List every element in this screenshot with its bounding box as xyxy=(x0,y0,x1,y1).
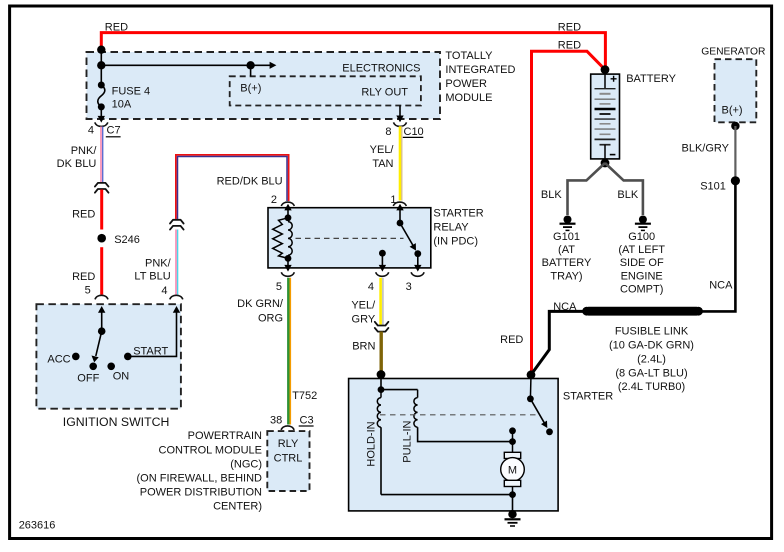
svg-text:(AT: (AT xyxy=(558,244,575,256)
svg-text:RLY OUT: RLY OUT xyxy=(361,87,408,99)
pin 38 connector C3 PCM entry xyxy=(270,415,314,430)
svg-text:ENGINE: ENGINE xyxy=(621,270,663,282)
wire RED from inline connector to ignition switch pin 5 xyxy=(72,190,102,295)
wire YEL/GRY from relay pin 4 to inline connector xyxy=(351,278,383,326)
module TIPM box xyxy=(87,52,441,119)
svg-text:8: 8 xyxy=(385,126,391,138)
node bus junction dot xyxy=(97,61,105,69)
svg-text:COMPT): COMPT) xyxy=(620,283,663,295)
wire NCA from S101 to fusible link xyxy=(699,181,736,312)
svg-text:TOTALLY: TOTALLY xyxy=(445,50,493,62)
wire BRN from inline connector to starter solenoid xyxy=(352,332,381,373)
ground G101 xyxy=(542,216,592,283)
svg-text:BRN: BRN xyxy=(352,340,375,352)
svg-text:(2.4L): (2.4L) xyxy=(637,353,666,365)
inductor hold-in winding xyxy=(366,390,382,495)
svg-text:RED: RED xyxy=(105,21,128,33)
svg-text:PNK/: PNK/ xyxy=(71,145,98,157)
svg-text:4: 4 xyxy=(161,285,167,297)
node splice S101 xyxy=(700,176,740,192)
svg-text:ELECTRONICS: ELECTRONICS xyxy=(342,63,420,75)
svg-text:S101: S101 xyxy=(700,180,726,192)
svg-text:5: 5 xyxy=(85,284,91,296)
motor starter box xyxy=(349,379,614,511)
svg-text:OFF: OFF xyxy=(77,372,99,384)
wire BLK battery negative to G101 xyxy=(541,163,605,215)
relay K1 starter relay box xyxy=(268,208,484,268)
wire RED/DK BLU from inline connector to relay pin 2 xyxy=(176,155,289,219)
resistor R1 relay coil suppression resistor xyxy=(273,218,288,259)
svg-text:DK GRN/: DK GRN/ xyxy=(237,298,284,310)
wire DK GRN/ORG from relay pin 5 to PCM C3 xyxy=(237,278,317,425)
svg-text:(IN PDC): (IN PDC) xyxy=(433,235,478,247)
wire NCA from fusible link to starter feed junction xyxy=(531,301,587,375)
svg-text:INTEGRATED: INTEGRATED xyxy=(445,64,515,76)
svg-text:(8 GA-LT BLU): (8 GA-LT BLU) xyxy=(615,367,687,379)
wire PNK/LT BLU from ignition pin 4 up to inline connector xyxy=(134,230,177,295)
svg-text:38: 38 xyxy=(270,415,282,427)
wire TIPM internal feed bus xyxy=(101,50,276,85)
svg-text:TRAY): TRAY) xyxy=(550,270,582,282)
svg-text:BLK: BLK xyxy=(617,189,638,201)
svg-text:10A: 10A xyxy=(112,98,132,110)
pin 4 ignition switch connector xyxy=(161,285,182,300)
wire BLK battery negative to G100 xyxy=(605,163,643,215)
svg-text:G101: G101 xyxy=(553,231,580,243)
connector inline on PNK/DK BLU to RED xyxy=(95,183,109,193)
pin 5 relay exit arrow xyxy=(276,258,294,293)
battery B1 box xyxy=(591,73,677,159)
pin 5 ignition switch entry xyxy=(85,284,108,331)
svg-text:POWER DISTRIBUTION: POWER DISTRIBUTION xyxy=(140,487,262,499)
wire PNK/DK BLU from C7 to inline connector xyxy=(57,127,103,183)
svg-text:CENTER): CENTER) xyxy=(213,501,262,513)
svg-text:LT BLU: LT BLU xyxy=(134,271,170,283)
node motor feed contacts xyxy=(509,427,516,445)
node B(+) drop junction xyxy=(240,61,261,94)
svg-text:BATTERY: BATTERY xyxy=(626,73,676,85)
svg-text:(NGC): (NGC) xyxy=(230,458,262,470)
connector inline on YEL/GRY to BRN xyxy=(375,322,389,332)
svg-text:GENERATOR: GENERATOR xyxy=(701,46,765,57)
pin 3 relay exit arrow xyxy=(406,254,425,293)
motor M starter motor xyxy=(501,442,525,495)
svg-text:FUSE 4: FUSE 4 xyxy=(112,85,151,97)
module ignition switch box xyxy=(36,304,181,429)
battery B1 internal plates xyxy=(595,65,617,167)
wire YEL/TAN from C10 to relay pin 1 xyxy=(370,126,402,200)
node starter main feed junction xyxy=(527,370,536,398)
pin 1 relay entry connector xyxy=(390,194,406,223)
svg-text:(10 GA-DK GRN): (10 GA-DK GRN) xyxy=(609,340,694,352)
svg-text:ACC: ACC xyxy=(47,353,70,365)
svg-text:M: M xyxy=(508,465,517,477)
svg-text:POWERTRAIN: POWERTRAIN xyxy=(188,430,262,442)
svg-text:(2.4L TURB0): (2.4L TURB0) xyxy=(618,381,685,393)
svg-text:POWER: POWER xyxy=(445,78,487,90)
svg-text:T752: T752 xyxy=(292,390,317,402)
svg-text:PNK/: PNK/ xyxy=(145,258,172,270)
svg-text:NCA: NCA xyxy=(553,301,577,313)
ground starter case ground xyxy=(505,510,521,526)
module generator box xyxy=(701,46,765,122)
svg-text:5: 5 xyxy=(276,281,282,293)
node starter solenoid feed junction xyxy=(377,370,386,390)
svg-text:ORG: ORG xyxy=(258,312,283,324)
switch starter solenoid contact arm xyxy=(527,395,553,435)
connector inline on PNK/LT BLU to RED/DK BLU xyxy=(170,220,184,230)
svg-text:(AT LEFT: (AT LEFT xyxy=(618,244,665,256)
module ELECTRONICS sub-box (inside TIPM) xyxy=(230,63,421,106)
svg-text:RELAY: RELAY xyxy=(433,221,469,233)
fusible link FL1 xyxy=(582,307,703,393)
svg-text:BLK/GRY: BLK/GRY xyxy=(682,143,730,155)
svg-text:STARTER: STARTER xyxy=(563,390,613,402)
svg-text:RED: RED xyxy=(72,271,95,283)
svg-text:RED: RED xyxy=(500,334,523,346)
svg-text:G100: G100 xyxy=(628,231,655,243)
svg-text:4: 4 xyxy=(88,125,94,137)
module TIPM label TOTALLY INTEGRATED POWER MODULE xyxy=(445,50,515,104)
inductor L1 relay coil xyxy=(285,214,293,261)
ground G100 xyxy=(618,216,665,296)
node TIPM battery feed junction xyxy=(97,46,105,54)
svg-text:(ON FIREWALL, BEHIND: (ON FIREWALL, BEHIND xyxy=(137,473,263,485)
svg-text:C7: C7 xyxy=(107,125,121,137)
pin 2 relay entry connector xyxy=(271,194,294,218)
svg-text:RLY: RLY xyxy=(278,438,299,450)
svg-text:GRY: GRY xyxy=(352,314,376,326)
svg-text:RED: RED xyxy=(558,21,581,33)
svg-text:NCA: NCA xyxy=(709,280,733,292)
switch relay contact arm xyxy=(397,220,422,258)
svg-text:RED: RED xyxy=(72,208,95,220)
svg-text:DK BLU: DK BLU xyxy=(57,158,97,170)
svg-text:4: 4 xyxy=(368,281,374,293)
svg-text:FUSIBLE LINK: FUSIBLE LINK xyxy=(615,326,689,338)
wire START terminal to ignition pin 4 xyxy=(128,306,180,356)
svg-text:TAN: TAN xyxy=(372,158,393,170)
svg-text:RED/DK BLU: RED/DK BLU xyxy=(217,176,283,188)
switch SW1 ignition switch arm and positions xyxy=(47,327,168,384)
svg-text:PULL-IN: PULL-IN xyxy=(401,420,413,462)
pin 8 connector C10 RLY OUT exit arrow xyxy=(361,87,423,138)
svg-text:YEL/: YEL/ xyxy=(351,300,376,312)
svg-text:ON: ON xyxy=(113,370,130,382)
svg-text:B(+): B(+) xyxy=(722,104,743,116)
wire RED from TIPM top to battery positive xyxy=(101,21,605,69)
pin 4 relay exit arrow xyxy=(368,250,389,293)
svg-text:YEL/: YEL/ xyxy=(370,144,395,156)
svg-text:C10: C10 xyxy=(404,126,424,138)
svg-text:B(+): B(+) xyxy=(240,82,261,94)
wire starter internal return xyxy=(381,491,516,511)
svg-text:C3: C3 xyxy=(300,415,314,427)
svg-text:BATTERY: BATTERY xyxy=(542,257,592,269)
svg-text:IGNITION SWITCH: IGNITION SWITCH xyxy=(63,415,170,429)
inductor pull-in winding xyxy=(401,390,512,463)
wire RED from battery positive down right side to starter xyxy=(500,39,605,374)
svg-text:263616: 263616 xyxy=(19,520,56,532)
svg-text:SIDE OF: SIDE OF xyxy=(620,257,664,269)
wire relay dashed actuation link xyxy=(296,237,404,239)
svg-text:MODULE: MODULE xyxy=(445,92,492,104)
fuse F4 FUSE 4 10A xyxy=(98,82,150,111)
module PCM label POWERTRAIN CONTROL MODULE xyxy=(137,430,263,513)
wire starter dashed actuation link xyxy=(380,414,537,416)
svg-text:RED: RED xyxy=(558,39,581,51)
node starter coils junction xyxy=(378,386,418,393)
svg-text:3: 3 xyxy=(406,281,412,293)
svg-text:BLK: BLK xyxy=(541,189,562,201)
node splice S246 xyxy=(97,234,140,246)
module PCM RLY CTRL box xyxy=(267,431,309,491)
svg-text:S246: S246 xyxy=(114,234,140,246)
svg-text:STARTER: STARTER xyxy=(433,208,483,220)
svg-text:HOLD-IN: HOLD-IN xyxy=(366,421,378,466)
svg-text:CTRL: CTRL xyxy=(274,452,303,464)
wire BLK/GRY from generator B(+) to S101 xyxy=(682,122,740,178)
pin 4 connector C7 exit arrow xyxy=(88,107,121,137)
svg-text:2: 2 xyxy=(271,194,277,206)
svg-text:CONTROL MODULE: CONTROL MODULE xyxy=(159,444,263,456)
